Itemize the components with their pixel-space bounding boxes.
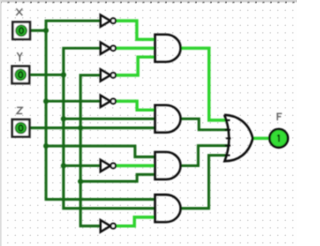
input pin Y	[12, 66, 29, 83]
wire: Z branch to AND gate U8 bottom input	[81, 175, 156, 182]
node: Y to U7 junction	[61, 116, 66, 121]
wire: AND U8 output to OR gate U10 input 4	[181, 146, 229, 166]
wire: OR gate U10 output to pin F (high)	[253, 137, 269, 140]
wire: inverter U1 output to AND gate U0 top input (high)	[115, 21, 155, 40]
label F	[277, 113, 282, 121]
wire: Z pin row to AND gate U7 bottom input	[30, 127, 156, 130]
AND gate U0 (X'Y'Z')	[155, 35, 181, 62]
wire: X branch to inverter U4 input	[46, 100, 101, 103]
node: Z to U8 junction	[78, 179, 83, 184]
inverter U2 (Y')	[101, 42, 116, 54]
node: Y stub junction	[61, 72, 66, 77]
input pin X	[13, 22, 30, 39]
node: X stub junction	[43, 28, 48, 33]
AND gate U7 (X'YZ)	[155, 105, 181, 132]
wire: Y branch to inverter U5 input	[64, 164, 101, 167]
node: X to U4 junction	[43, 99, 48, 104]
wire: Y branch to AND gate U7 middle input	[64, 117, 156, 120]
node: Z row junction	[78, 125, 83, 130]
wire: inverter U5 output to AND gate U8 middle input (high)	[115, 164, 155, 167]
wire: inverter U2 output to AND gate U0 middle input (high)	[115, 47, 155, 50]
inverter U1 (X')	[101, 15, 116, 27]
inverter U6 (Z')	[101, 220, 116, 232]
wire: Z vertical bus with corner to inverter U3 input and corner to inverter U6 input	[81, 75, 101, 226]
AND gate U9 (XYZ')	[155, 195, 181, 222]
OR gate U10	[224, 115, 253, 161]
wire: inverter U4 output to AND gate U7 top input (high)	[115, 101, 155, 110]
node: X to U8 junction	[43, 143, 48, 148]
wire: X pin stub to X bus	[30, 29, 48, 32]
label Y	[17, 52, 22, 61]
inverter U4 (X')	[101, 95, 116, 107]
wire: AND U9 output to OR gate U10 input 5	[181, 155, 228, 208]
wire: X branch to AND gate U8 top input	[46, 146, 155, 157]
wire: AND U7 output to OR gate U10 input 2	[181, 119, 229, 130]
wire: X vertical bus with top corner to inverter U1 input	[46, 21, 155, 200]
wire: AND U0 output to OR gate U10 input 1 (high)	[181, 48, 227, 120]
label Z	[17, 107, 22, 113]
inverter U3 (Z')	[101, 69, 116, 81]
output pin F	[270, 129, 288, 147]
wire: Y vertical bus with top corner to inverter U2 input	[64, 48, 156, 208]
AND gate U8 (XY'Z)	[155, 152, 181, 179]
input pin Z	[12, 120, 29, 137]
inverter U5 (Y')	[101, 160, 116, 172]
label X	[16, 9, 22, 16]
wire: inverter U6 output to AND gate U9 bottom input (high)	[115, 217, 155, 226]
wire: Y pin stub to Y bus	[29, 73, 65, 76]
OR gate U10 input stub lines	[225, 120, 231, 155]
node: Y to U5 junction	[61, 163, 66, 168]
wire: inverter U3 output to AND gate U0 bottom input (high)	[115, 57, 155, 75]
